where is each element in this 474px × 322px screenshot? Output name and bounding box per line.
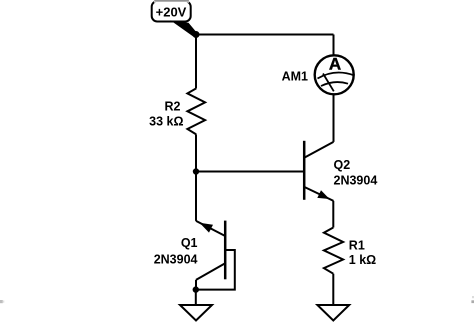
svg-text:33 kΩ: 33 kΩ: [149, 115, 183, 129]
wire: Q1 junction to ground: [195, 290, 197, 305]
wire: down into ammeter AM1: [333, 35, 335, 56]
wire: ammeter bottom to Q2 collector: [333, 94, 335, 142]
stray gray smudge right edge: [471, 300, 474, 303]
transistor Q1 (diode-connected, rotated 180°): [196, 221, 235, 290]
ammeter AM1: [315, 55, 355, 95]
svg-text:+20V: +20V: [156, 5, 187, 20]
wire: R1 bottom to ground: [332, 274, 334, 305]
svg-text:2N3904: 2N3904: [334, 174, 378, 188]
svg-text:R2: R2: [165, 100, 181, 114]
wire: Q2 emitter down to R1: [332, 201, 334, 228]
transistor Q2: [304, 141, 333, 201]
svg-text:AM1: AM1: [282, 69, 308, 83]
svg-text:2N3904: 2N3904: [154, 252, 198, 266]
svg-text:R1: R1: [349, 239, 365, 253]
resistor R2: [187, 88, 205, 134]
svg-text:1 kΩ: 1 kΩ: [349, 253, 376, 267]
power flag +20V: [152, 0, 198, 37]
resistor R1: [324, 228, 343, 274]
node: Q1 collector/base junction dot: [193, 286, 199, 292]
wire: supply node down to R2 top: [195, 35, 197, 89]
svg-text:Q2: Q2: [334, 158, 351, 172]
wire: supply node to ammeter top (horizontal): [196, 34, 334, 36]
svg-text:Q1: Q1: [181, 236, 198, 250]
wire: node A to Q2 base: [196, 171, 303, 173]
wire: node A down to Q1 emitter: [195, 172, 197, 221]
node: +20V supply node (junction dot): [193, 31, 200, 38]
stray gray smudge left edge: [0, 300, 3, 303]
node A (junction dot at R2 / Q2 base / Q1): [193, 168, 199, 174]
wire: R2 bottom to node A: [195, 134, 197, 171]
ground (right, under R1): [317, 305, 349, 321]
svg-text:A: A: [329, 55, 341, 74]
ground (left, under Q1): [180, 305, 212, 321]
